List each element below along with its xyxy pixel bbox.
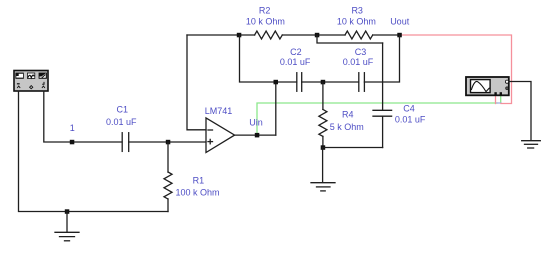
- svg-text:100 k Ohm: 100 k Ohm: [175, 187, 219, 197]
- wire (op-amp output): [235, 134, 276, 136]
- node 1: [70, 123, 75, 133]
- wire (R2/R3 midpoint to C4 branch): [317, 35, 383, 43]
- op-amp U1 LM741: [205, 106, 235, 153]
- svg-text:C4: C4: [403, 103, 415, 113]
- resistor R3: [337, 5, 376, 39]
- svg-text:1: 1: [70, 123, 75, 133]
- ground: [55, 212, 79, 241]
- function generator XFG1: [14, 71, 48, 92]
- svg-text:R4: R4: [342, 110, 354, 120]
- capacitor C2: [280, 47, 311, 92]
- junction: [70, 140, 75, 145]
- wire: [373, 34, 400, 36]
- wire: [44, 91, 122, 142]
- wire: [275, 82, 277, 135]
- svg-text:0.01 uF: 0.01 uF: [280, 57, 311, 67]
- wire: [282, 34, 345, 36]
- resistor R2: [246, 5, 285, 39]
- wire: [240, 35, 297, 82]
- wire: [364, 35, 399, 82]
- svg-text:0.01 uF: 0.01 uF: [395, 115, 426, 125]
- ground: [522, 141, 541, 148]
- ground: [311, 148, 335, 191]
- capacitor C4: [373, 103, 426, 124]
- wire: [509, 82, 531, 141]
- svg-text:0.01 uF: 0.01 uF: [106, 117, 137, 127]
- svg-text:C3: C3: [355, 47, 367, 57]
- junction: [237, 33, 242, 38]
- svg-text:R2: R2: [259, 5, 271, 15]
- resistor R4: [319, 82, 364, 148]
- junction: [65, 209, 70, 214]
- svg-text:R3: R3: [351, 5, 363, 15]
- wire green (scope channel A from node Uin): [257, 96, 501, 136]
- svg-text:0.01 uF: 0.01 uF: [343, 57, 374, 67]
- wire: [19, 91, 169, 211]
- svg-text:LM741: LM741: [205, 106, 233, 116]
- node Uin: [249, 118, 263, 138]
- junction: [321, 145, 326, 150]
- junction: [274, 80, 279, 85]
- svg-text:C1: C1: [117, 104, 129, 114]
- wire (inverting input): [187, 35, 206, 130]
- svg-text:5 k Ohm: 5 k Ohm: [330, 122, 364, 132]
- junction: [321, 80, 326, 85]
- junction: [166, 140, 171, 145]
- wire red (Uout to scope): [400, 35, 512, 104]
- svg-text:Uin: Uin: [249, 118, 263, 128]
- svg-text:10 k Ohm: 10 k Ohm: [246, 16, 285, 26]
- wire: [323, 147, 383, 149]
- svg-text:R1: R1: [193, 176, 205, 186]
- svg-text:C2: C2: [290, 47, 302, 57]
- resistor R1: [164, 142, 220, 212]
- svg-text:Uout: Uout: [390, 17, 410, 27]
- wire: [129, 141, 206, 143]
- oscilloscope XSC1: [466, 77, 509, 95]
- svg-text:10 k Ohm: 10 k Ohm: [337, 17, 376, 27]
- capacitor C3: [343, 47, 374, 92]
- wire blue (scope stub): [497, 102, 501, 104]
- capacitor C1: [106, 104, 137, 151]
- wire: [382, 116, 384, 147]
- wire (top feedback): [187, 34, 255, 36]
- node Uout: [390, 17, 410, 38]
- junction: [315, 33, 320, 38]
- wire: [382, 43, 384, 110]
- wire: [302, 81, 359, 83]
